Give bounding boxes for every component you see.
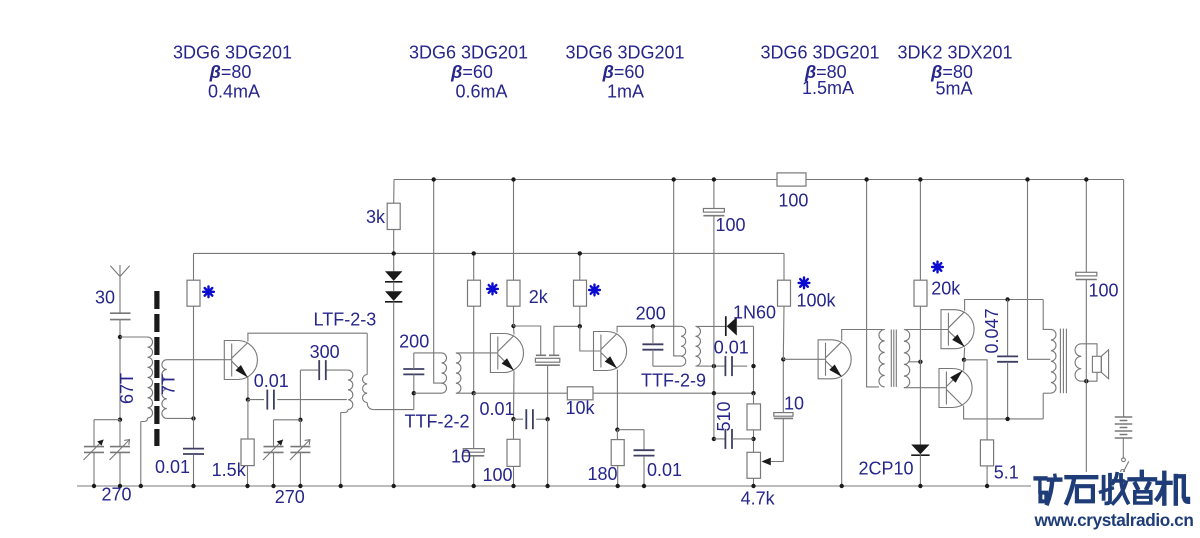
inductor winding [363, 375, 368, 403]
resistor R2 Q2 base bias * [468, 280, 481, 306]
svg-text:0.01: 0.01 [647, 460, 682, 480]
capacitor 0.01 Q1 base bypass [183, 448, 204, 450]
wire [414, 352, 442, 354]
asterisk R3 [589, 285, 600, 296]
wire [110, 312, 131, 314]
junction [472, 484, 476, 488]
wire supply to output primary centre tap [1028, 180, 1051, 360]
wire driver secondary top to Q5 base [904, 329, 949, 331]
junction [840, 484, 844, 488]
node speaker ground tap [1084, 379, 1088, 383]
svg-text:270: 270 [101, 485, 131, 505]
wire [648, 325, 681, 327]
antenna ANT [110, 265, 129, 277]
capacitor 0.01 Q3 emitter bypass [634, 449, 655, 451]
wire [1043, 325, 1051, 329]
wire emitter to bypass cap [514, 418, 524, 420]
resistor 510 detector load [747, 404, 761, 430]
wire AF filter line right [732, 438, 754, 440]
node tuning cap top [118, 418, 122, 422]
transistor Q3 second IF amp [594, 332, 627, 371]
resistor R3 Q3 base bias * [574, 280, 587, 306]
wire top rail to R 2k [513, 180, 515, 281]
wire emitter to R100 [513, 419, 515, 439]
wire C1d to ground [299, 452, 301, 486]
wire Q5 emitter down [963, 348, 966, 360]
capacitor electrolytic [703, 209, 724, 213]
node Q1 bias / 7T bottom [191, 416, 195, 420]
wire oscillator coil bottom to ground [340, 412, 342, 486]
svg-text:10: 10 [784, 394, 804, 414]
svg-text:10k: 10k [565, 398, 595, 418]
node antenna coil top [118, 335, 122, 339]
wire top rail to C100 [713, 180, 715, 209]
junction [139, 484, 143, 488]
wire [326, 369, 348, 371]
wire between diodes [393, 282, 395, 292]
wire 7T top to Q1 base [167, 359, 232, 361]
svg-text:3DG6 3DG201: 3DG6 3DG201 [760, 43, 879, 63]
wire 100k to Q4 base [782, 306, 785, 359]
wire top rail right side down to battery [1123, 180, 1125, 418]
inductor winding [681, 326, 686, 366]
asterisk R2 [487, 284, 498, 295]
svg-text:5mA: 5mA [935, 79, 972, 99]
wire secondary bottom to speaker [1081, 372, 1097, 381]
wire R180 to ground [617, 466, 619, 486]
capacitor 300 oscillator padder [318, 360, 320, 380]
transistor Q2 first IF amp [490, 334, 523, 373]
svg-text:5.1: 5.1 [994, 463, 1019, 483]
wire C30 down to tuning node [119, 320, 121, 420]
wire Q3 emitter down [616, 370, 618, 430]
resistor 2k Q2 collector load [507, 280, 520, 306]
switch K power [1122, 458, 1126, 462]
wire C10 to ground [473, 456, 475, 486]
wire to var cap C1c [274, 419, 301, 421]
wire top rail to R 20k [919, 180, 921, 281]
wire R3 down [579, 306, 581, 326]
wire bias rail end to R 100k [783, 253, 785, 280]
inductor LTF-2-3 feedback winding [366, 333, 368, 374]
wire padder left [300, 369, 319, 371]
wire Q5 collector to output transformer top [965, 300, 1044, 311]
wire emitter to R 1.5k [247, 400, 249, 439]
wire AGC line right section [593, 392, 754, 394]
wire driver secondary centre tap [909, 361, 921, 363]
wire antenna to C 30 [119, 277, 121, 314]
wire [536, 354, 546, 356]
resistor 5.1 emitter feedback [980, 440, 993, 466]
inductor winding [162, 360, 167, 419]
diode 2CP10 bias [911, 445, 929, 455]
wire node to C 0.01 [193, 418, 195, 448]
junction [472, 251, 476, 255]
resistor 100 supply decoupler [777, 173, 806, 186]
wire 0.047 top lead [1007, 300, 1009, 357]
wire R100 to ground [513, 466, 515, 486]
watermark text kuangshi shouyinji [1036, 472, 1188, 504]
wire cap to ground [643, 456, 645, 486]
svg-text:100: 100 [715, 215, 745, 235]
wire 3k to diodes [393, 230, 395, 272]
wire C100 down to ground (under watermark) [1085, 280, 1087, 475]
variable capacitor C1d 270 (osc trimmer) [290, 446, 310, 448]
node 0.047 top [1005, 297, 1009, 301]
junction [118, 484, 122, 488]
watermark background [1031, 472, 1200, 533]
node Q3 emitter [615, 428, 619, 432]
node bypass junction [545, 417, 549, 421]
wire R5.1 to ground [986, 466, 988, 486]
wire battery to switch [1122, 438, 1124, 458]
svg-text:0.01: 0.01 [714, 338, 749, 358]
wire [549, 354, 559, 356]
svg-text:0.01: 0.01 [254, 371, 289, 391]
capacitor 200 first IF tank [403, 368, 424, 370]
wire TTF-2-9 secondary bottom [696, 365, 710, 367]
transistor Q1 converter 3DG201 [224, 341, 257, 380]
wire Q1 collector to oscillator winding [248, 333, 367, 341]
wire to Q4 base bar [783, 358, 825, 360]
wire [725, 316, 727, 336]
svg-text:20k: 20k [931, 279, 961, 299]
wire emitter to R180 [616, 430, 618, 440]
wire [911, 454, 929, 456]
svg-text:β=80: β=80 [209, 62, 252, 82]
wire R2 down to AGC node [473, 306, 475, 393]
ferrite rod core [154, 291, 159, 446]
wire [110, 319, 131, 321]
junction [918, 177, 922, 181]
svg-text:180: 180 [587, 464, 617, 484]
wire top supply rail [394, 179, 1124, 181]
wire [1065, 329, 1067, 394]
wire [535, 364, 559, 366]
wire var cap C1d lead [299, 420, 301, 447]
capacitor 0.01 AF filter [724, 429, 726, 449]
svg-text:300: 300 [310, 342, 340, 362]
wire [774, 417, 793, 419]
svg-text:0.01: 0.01 [479, 399, 514, 419]
wire AGC node to C10 [473, 393, 475, 448]
wire [1062, 329, 1064, 394]
wire emitters to R 5.1 [964, 360, 987, 440]
wire 1.5k to ground [247, 466, 249, 486]
node IF filter / decoupling [712, 364, 716, 368]
junction [92, 484, 96, 488]
wire TTF-2-9 secondary top to detector [696, 325, 726, 327]
wire [1043, 392, 1051, 394]
junction [578, 251, 582, 255]
wire C to oscillator coil tap [277, 399, 347, 401]
svg-text:100: 100 [482, 465, 512, 485]
wire [414, 392, 442, 394]
junction [339, 484, 343, 488]
wire to var cap C1a [94, 419, 120, 421]
variable capacitor C1b 270 (trimmer) [110, 446, 130, 448]
wire Q4 collector to driver transformer [842, 330, 885, 341]
node Q4 base [781, 357, 785, 361]
svg-text:0.047: 0.047 [982, 308, 1002, 353]
wire stabilized bias rail [194, 252, 785, 254]
transistor Q4 audio driver [818, 340, 851, 379]
wire C100 to volume network [713, 216, 715, 439]
diode D2 bias stabilizer [385, 291, 402, 301]
junction [672, 177, 676, 181]
wire pot to ground [753, 478, 755, 486]
wire junction to ground [547, 419, 549, 486]
wire secondary top to speaker [1081, 344, 1097, 357]
junction [985, 484, 989, 488]
battery 3V [1115, 417, 1133, 438]
wire supply to driver primary bottom [867, 180, 879, 387]
svg-text:TTF-2-9: TTF-2-9 [641, 370, 706, 390]
wire 20k to centre tap and diode [919, 306, 921, 444]
inductor driver primary [879, 330, 885, 387]
node pot top [751, 437, 755, 441]
variable capacitor C1c 270 (oscillator) [264, 446, 284, 448]
resistor 20k centre tap bias * [914, 280, 927, 306]
wire diode to detector rail [737, 325, 754, 327]
svg-text:2CP10: 2CP10 [858, 459, 913, 479]
wire var cap C1c lead [273, 420, 275, 447]
wire emitter to bypass cap [617, 429, 644, 431]
wire [653, 365, 681, 367]
wire IF filter line right [732, 365, 747, 367]
node AGC takeoff [751, 391, 755, 395]
junction [271, 484, 275, 488]
wire R1 to 7T bottom node [193, 306, 195, 418]
wire TTF-2-2 secondary top to Q2 base [456, 352, 498, 354]
svg-text:β=60: β=60 [450, 62, 493, 82]
svg-text:TTF-2-2: TTF-2-2 [405, 412, 470, 432]
capacitor 0.01 Q2 emitter bypass [525, 409, 527, 429]
wire [895, 330, 897, 387]
inductor winding [456, 353, 461, 393]
junction [392, 484, 396, 488]
asterisk R1 [203, 286, 214, 297]
resistor R1 Q1 base bias * [187, 280, 200, 306]
capacitor 10uF AF coupling [774, 413, 793, 417]
node AGC cross [712, 391, 716, 395]
wire to 510 [753, 393, 755, 404]
svg-text:LTF-2-3: LTF-2-3 [314, 309, 377, 329]
inductor winding [696, 326, 701, 366]
resistor 180 Q3 emitter [611, 440, 624, 466]
node Q2 collector [511, 324, 515, 328]
wire Q2 collector up [513, 326, 516, 335]
capacitor electrolytic [1076, 272, 1097, 276]
wire tank cap bottom lead [413, 374, 415, 393]
svg-text:3k: 3k [366, 207, 386, 227]
node detector output [751, 364, 755, 368]
svg-text:100: 100 [778, 191, 808, 211]
junction [616, 484, 620, 488]
wire emitter to C 0.01 osc [248, 399, 264, 401]
wire bias rail to R1 [193, 253, 195, 280]
wire ground bottom rail [77, 485, 1033, 487]
wire C1c to ground [273, 452, 275, 486]
svg-text:30: 30 [95, 288, 115, 308]
resistor 3k supply dropper [387, 203, 400, 229]
asterisk 20k [932, 262, 943, 273]
wire Q1 emitter down [247, 378, 249, 400]
svg-text:3DG6 3DG201: 3DG6 3DG201 [173, 43, 292, 63]
inductor winding [1075, 344, 1081, 381]
node Q1 emitter [246, 397, 250, 401]
variable capacitor C1a 270 (antenna) [84, 446, 104, 448]
junction [1025, 177, 1029, 181]
resistor 100 Q2 emitter [507, 439, 520, 466]
wire tank cap top lead [413, 353, 415, 369]
junction [545, 484, 549, 488]
resistor 10k AGC [567, 387, 593, 400]
svg-text:3DG6 3DG201: 3DG6 3DG201 [409, 43, 528, 63]
svg-text:10: 10 [451, 447, 471, 467]
inductor winding [348, 370, 353, 410]
wire top rail to R 3k [393, 180, 395, 204]
wire 67T bottom to ground [140, 422, 142, 487]
wire bias rail to R3 [579, 253, 581, 280]
junction [245, 484, 249, 488]
wire output primary bottom [1042, 393, 1044, 419]
wire tank cap bottom lead [652, 350, 654, 367]
node bias rail / 3k [392, 251, 396, 255]
svg-text:7T: 7T [159, 374, 179, 395]
resistor 1.5k Q1 emitter [241, 439, 254, 466]
inductor winding [904, 330, 910, 388]
svg-text:1N60: 1N60 [733, 303, 776, 323]
junction [298, 484, 302, 488]
inductor winding [442, 353, 447, 393]
node IF tank cold end [412, 391, 416, 395]
wire var cap C1a top lead [93, 420, 95, 447]
wire diodes to ground [393, 302, 395, 486]
wire 510 to pot [753, 430, 755, 452]
wire feedback winding to IF tank [413, 393, 415, 409]
junction [712, 177, 716, 181]
wire var cap C1a to ground [93, 452, 95, 486]
resistor 100k Q4 bias * [778, 280, 791, 306]
node oscillator tuning cap [298, 418, 302, 422]
wire Q2 collector to decoupling cap [514, 326, 541, 355]
wire tank cap top lead [652, 326, 654, 344]
wire var cap C1b to ground [119, 452, 121, 486]
transistor Q6 output lower [939, 369, 972, 408]
svg-text:100: 100 [1088, 281, 1118, 301]
wire Q6 collector to output transformer bottom [964, 406, 1044, 419]
speaker BL [1092, 356, 1101, 372]
junction [511, 177, 515, 181]
wire into output primary top [1042, 300, 1044, 326]
wire 2CP10 to ground [919, 455, 921, 486]
junction [642, 484, 646, 488]
svg-text:270: 270 [275, 487, 305, 507]
wire supply to TTF-2-2 primary tap [434, 180, 442, 384]
wire Q3 collector to TTF-2-9 [617, 326, 648, 332]
wire [1059, 329, 1061, 394]
svg-text:200: 200 [636, 304, 666, 324]
node Q2 emitter [511, 417, 515, 421]
capacitor 0.01 oscillator feedback [266, 390, 268, 410]
wire IF filter line left [710, 365, 726, 367]
svg-text:3DG6 3DG201: 3DG6 3DG201 [565, 43, 684, 63]
wire AF filter line left [714, 438, 726, 440]
node joint emitters [962, 358, 966, 362]
wire bypass cap lead [643, 430, 645, 450]
capacitor electrolytic [463, 449, 484, 453]
wire supply to TTF-2-9 primary tap [674, 180, 681, 356]
wire Q6 emitter up [963, 360, 965, 371]
junction [432, 177, 436, 181]
svg-text:3DK2 3DX201: 3DK2 3DX201 [897, 43, 1012, 63]
wire var cap C1b top lead [119, 420, 121, 447]
junction [864, 177, 868, 181]
wire coupling cap to Q4 base [782, 359, 784, 412]
svg-text:1.5mA: 1.5mA [802, 78, 854, 98]
wire decoupling cap to ground line [547, 365, 549, 419]
wire TTF-2-2 secondary bottom to AGC node [456, 392, 474, 394]
wire top rail to output C100 [1085, 180, 1087, 273]
junction [511, 484, 515, 488]
node Q3 bias [578, 324, 582, 328]
svg-text:0.4mA: 0.4mA [208, 81, 260, 101]
wire driver secondary bottom to Q6 base [904, 387, 947, 389]
svg-text:1.5k: 1.5k [212, 460, 247, 480]
svg-text:4.7k: 4.7k [741, 489, 776, 509]
svg-text:0.01: 0.01 [155, 457, 190, 477]
wire [893, 330, 895, 387]
wire Q3 bias node to decoupling cap [554, 326, 580, 355]
wire C to ground [193, 455, 195, 486]
node 0.047 bottom [1005, 417, 1009, 421]
inductor winding [1051, 329, 1056, 393]
capacitor 200 second IF tank [642, 343, 663, 345]
potentiometer wiper arrow [762, 458, 771, 466]
svg-text:67T: 67T [117, 373, 137, 404]
wire bypass cap to ground line [536, 418, 547, 420]
node second IF tank top [651, 324, 655, 328]
wire 7T bottom to bias node [167, 417, 194, 419]
asterisk 100k [799, 278, 810, 289]
svg-text:2k: 2k [529, 287, 549, 307]
node volume bottom [712, 437, 716, 441]
wire Q4 emitter to ground [841, 379, 843, 486]
svg-text:www.crystalradio.cn: www.crystalradio.cn [1034, 510, 1194, 530]
wire AGC line left section [474, 392, 568, 394]
svg-text:1mA: 1mA [607, 81, 644, 101]
svg-text:0.6mA: 0.6mA [455, 81, 507, 101]
svg-text:β=60: β=60 [602, 62, 645, 82]
inductor winding [148, 337, 153, 418]
potentiometer 4.7k volume [747, 452, 761, 478]
wire [374, 409, 414, 411]
svg-text:510: 510 [714, 401, 734, 431]
transistor Q5 output upper [941, 310, 974, 349]
svg-text:200: 200 [399, 332, 429, 352]
wire 2k to Q2 collector [513, 306, 515, 326]
wire bias to Q3 base [580, 326, 601, 351]
wire 0.047 bottom lead [1007, 362, 1009, 419]
wire Q2 emitter down [513, 371, 516, 419]
junction [751, 484, 755, 488]
wire detector rail down [753, 326, 755, 393]
junction [191, 484, 195, 488]
capacitor 0.01 IF filter [724, 356, 726, 376]
node centre tap [918, 360, 922, 364]
wire [120, 336, 148, 338]
